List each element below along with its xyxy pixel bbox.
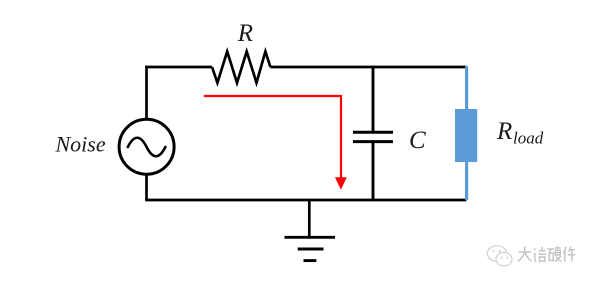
char 硬	[547, 246, 561, 261]
resistor R_load (blue rectangle body)	[455, 109, 477, 162]
capacitor C (parallel plates)	[353, 132, 393, 141]
current arrow (red noise current path)	[204, 96, 347, 190]
label Noise (source label)	[55, 132, 106, 157]
svg-text:R: R	[496, 118, 512, 145]
watermark text 大话硬件 (drawn strokes, light gray)	[518, 246, 575, 261]
label R (resistor value label)	[237, 20, 253, 47]
resistor R (zigzag body)	[212, 52, 270, 83]
watermark logo (WeChat-style bubbles, light gray)	[487, 246, 512, 266]
wire top-right horizontal (resistor to right branch)	[270, 66, 466, 69]
wire top-left horizontal (source top to resistor)	[145, 66, 212, 69]
char 大	[518, 247, 532, 262]
label R_load	[496, 118, 544, 148]
wire left-bottom vertical (source to bottom rail)	[145, 174, 148, 200]
char 件	[563, 246, 575, 261]
svg-text:C: C	[409, 127, 426, 154]
wire bottom rail horizontal	[145, 199, 466, 202]
char 话	[534, 247, 546, 262]
voltage source V1 (Noise, AC source circle)	[119, 119, 174, 174]
ground (earth symbol below bottom rail)	[285, 200, 336, 261]
svg-text:Noise: Noise	[55, 132, 106, 157]
svg-text:R: R	[237, 20, 253, 47]
wire left vertical (top corner down to source)	[145, 66, 148, 120]
wire capacitor bottom vertical	[372, 143, 375, 200]
label C (capacitor label)	[409, 127, 426, 154]
load branch wire (blue vertical)	[465, 66, 468, 200]
svg-text:load: load	[513, 129, 544, 148]
wire capacitor top vertical	[372, 66, 375, 131]
